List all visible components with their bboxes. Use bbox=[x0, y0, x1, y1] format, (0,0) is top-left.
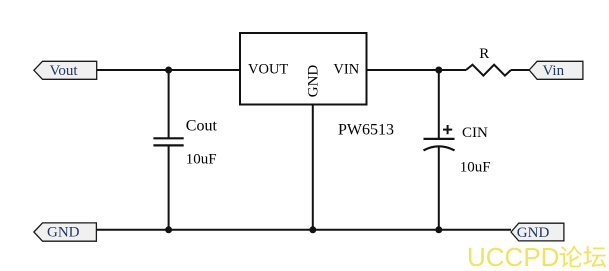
ground rail junction dot left bbox=[165, 226, 172, 233]
wire node A to VOUT pin bbox=[169, 69, 240, 71]
watermark UCCPD forum bbox=[467, 242, 606, 271]
capacitor CIN polarized bbox=[424, 125, 455, 150]
op-amp U1 PW6513 regulator box bbox=[240, 33, 367, 105]
wire ground rail bbox=[96, 229, 511, 231]
svg-text:GND: GND bbox=[47, 224, 80, 240]
svg-text:PW6513: PW6513 bbox=[338, 122, 394, 139]
node B junction dot bbox=[435, 67, 442, 74]
svg-text:CIN: CIN bbox=[462, 125, 488, 141]
ground GND port flag right bbox=[511, 223, 564, 241]
svg-text:GND: GND bbox=[306, 65, 322, 98]
wire CIN to ground rail bbox=[438, 147, 440, 230]
svg-text:10uF: 10uF bbox=[460, 159, 491, 175]
wire Vout flag to node A bbox=[96, 69, 169, 71]
wire node B down to CIN bbox=[438, 70, 440, 139]
wire node B to resistor bbox=[439, 69, 466, 71]
node Vout port flag bbox=[34, 61, 97, 79]
wire VIN pin to node B bbox=[367, 69, 439, 71]
svg-text:VOUT: VOUT bbox=[248, 62, 288, 78]
svg-text:UCCPD: UCCPD bbox=[467, 242, 559, 271]
svg-text:GND: GND bbox=[517, 225, 550, 241]
wire resistor to Vin flag bbox=[511, 69, 530, 71]
node Vin port flag bbox=[529, 61, 583, 79]
svg-text:Vin: Vin bbox=[543, 63, 565, 79]
svg-text:Vout: Vout bbox=[50, 63, 79, 79]
svg-text:R: R bbox=[479, 46, 489, 62]
wire Cout to ground rail bbox=[168, 145, 170, 229]
resistor R bbox=[466, 65, 511, 76]
ground rail junction dot right bbox=[435, 226, 442, 233]
svg-text:Cout: Cout bbox=[186, 117, 218, 134]
svg-text:VIN: VIN bbox=[333, 62, 359, 78]
ground GND port flag left bbox=[34, 223, 97, 241]
svg-text:10uF: 10uF bbox=[186, 152, 217, 168]
capacitor Cout bbox=[153, 138, 183, 145]
wire GND pin to ground rail bbox=[312, 105, 314, 230]
node A junction dot bbox=[165, 67, 172, 74]
ground rail junction dot middle bbox=[309, 226, 316, 233]
wire node A down to Cout bbox=[168, 70, 170, 138]
